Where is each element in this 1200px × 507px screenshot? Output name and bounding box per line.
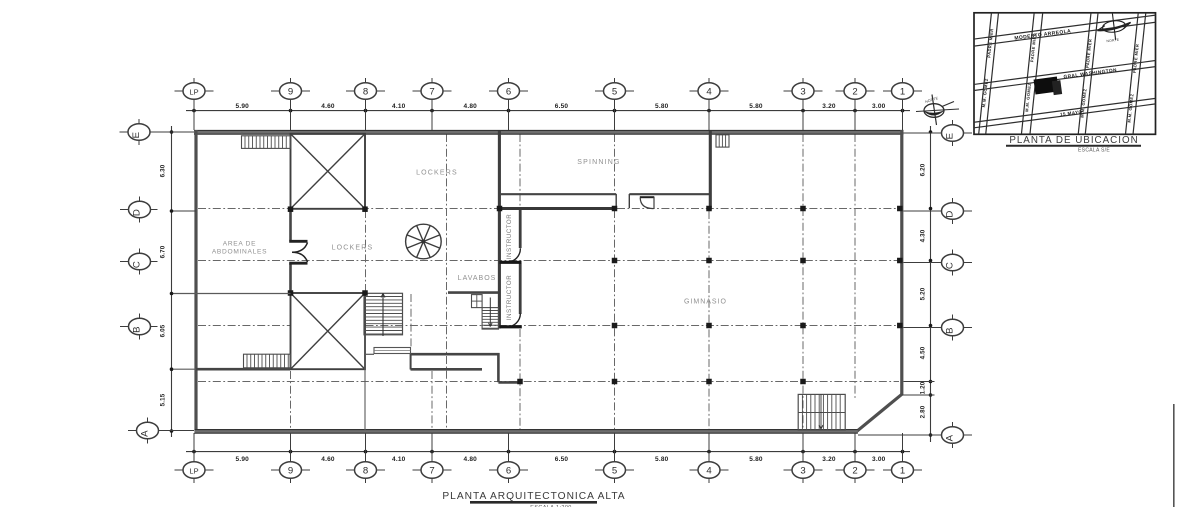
- svg-text:ABDOMINALES: ABDOMINALES: [212, 249, 267, 256]
- svg-text:6.30: 6.30: [160, 164, 167, 177]
- svg-text:LP: LP: [189, 466, 198, 475]
- svg-text:9: 9: [288, 86, 293, 97]
- svg-text:B: B: [945, 327, 956, 333]
- svg-text:D: D: [945, 211, 956, 218]
- svg-text:PLANTA ARQUITECTONICA ALTA: PLANTA ARQUITECTONICA ALTA: [442, 491, 625, 502]
- svg-text:5.80: 5.80: [655, 103, 669, 110]
- svg-text:6.50: 6.50: [555, 103, 569, 110]
- svg-text:1: 1: [900, 86, 905, 97]
- svg-text:1: 1: [900, 465, 905, 476]
- svg-text:8: 8: [363, 86, 368, 97]
- svg-text:5.20: 5.20: [920, 287, 927, 300]
- svg-text:D: D: [132, 209, 143, 216]
- svg-text:7: 7: [429, 465, 434, 476]
- svg-text:ESCALA S/E: ESCALA S/E: [1078, 148, 1110, 154]
- svg-text:6: 6: [506, 86, 511, 97]
- svg-text:LOCKERS: LOCKERS: [332, 245, 374, 252]
- svg-text:5.90: 5.90: [236, 456, 250, 463]
- svg-text:7: 7: [429, 86, 434, 97]
- svg-text:4.80: 4.80: [464, 456, 478, 463]
- svg-text:E: E: [131, 132, 142, 138]
- svg-text:INSTRUCTOR: INSTRUCTOR: [506, 275, 513, 320]
- svg-text:9: 9: [288, 465, 293, 476]
- svg-text:B: B: [132, 326, 143, 332]
- svg-text:5.15: 5.15: [160, 393, 167, 406]
- svg-text:6.05: 6.05: [160, 324, 167, 337]
- svg-text:6.70: 6.70: [160, 245, 167, 258]
- svg-text:AREA DE: AREA DE: [223, 241, 256, 248]
- svg-text:5: 5: [612, 86, 617, 97]
- svg-text:1.20: 1.20: [920, 381, 927, 394]
- svg-text:2: 2: [852, 86, 857, 97]
- svg-text:4: 4: [706, 465, 712, 476]
- svg-text:6.50: 6.50: [555, 456, 569, 463]
- svg-text:E: E: [945, 133, 956, 139]
- svg-text:6: 6: [506, 465, 511, 476]
- svg-text:4.50: 4.50: [920, 346, 927, 359]
- svg-text:5: 5: [612, 465, 617, 476]
- svg-text:4: 4: [706, 86, 712, 97]
- svg-text:4.30: 4.30: [920, 229, 927, 242]
- svg-text:LAVABOS: LAVABOS: [458, 275, 497, 282]
- svg-text:5.80: 5.80: [655, 456, 669, 463]
- svg-text:6.20: 6.20: [920, 163, 927, 176]
- svg-text:4.10: 4.10: [392, 456, 406, 463]
- svg-text:3.20: 3.20: [822, 103, 836, 110]
- svg-text:4.60: 4.60: [321, 456, 335, 463]
- svg-text:A: A: [945, 434, 956, 441]
- svg-text:5.80: 5.80: [749, 103, 763, 110]
- svg-text:C: C: [945, 262, 956, 269]
- svg-text:LOCKERS: LOCKERS: [416, 170, 458, 177]
- svg-text:C: C: [132, 261, 143, 268]
- svg-text:PLANTA DE UBICACION: PLANTA DE UBICACION: [1009, 135, 1138, 146]
- svg-text:4.10: 4.10: [392, 103, 406, 110]
- svg-text:GIMNASIO: GIMNASIO: [684, 299, 727, 306]
- svg-text:5.80: 5.80: [749, 456, 763, 463]
- svg-text:3.20: 3.20: [822, 456, 836, 463]
- svg-text:8: 8: [363, 465, 368, 476]
- svg-text:3.00: 3.00: [872, 456, 886, 463]
- svg-text:3.00: 3.00: [872, 103, 886, 110]
- svg-text:3: 3: [800, 86, 805, 97]
- svg-text:4.60: 4.60: [321, 103, 335, 110]
- svg-text:A: A: [140, 430, 151, 437]
- svg-text:INSTRUCTOR: INSTRUCTOR: [506, 214, 513, 259]
- svg-text:2: 2: [852, 465, 857, 476]
- svg-text:5.90: 5.90: [236, 103, 250, 110]
- svg-text:4.80: 4.80: [464, 103, 478, 110]
- svg-text:2.80: 2.80: [920, 405, 927, 418]
- svg-text:SPINNING: SPINNING: [577, 159, 620, 166]
- svg-text:3: 3: [800, 465, 805, 476]
- svg-text:LP: LP: [189, 87, 198, 96]
